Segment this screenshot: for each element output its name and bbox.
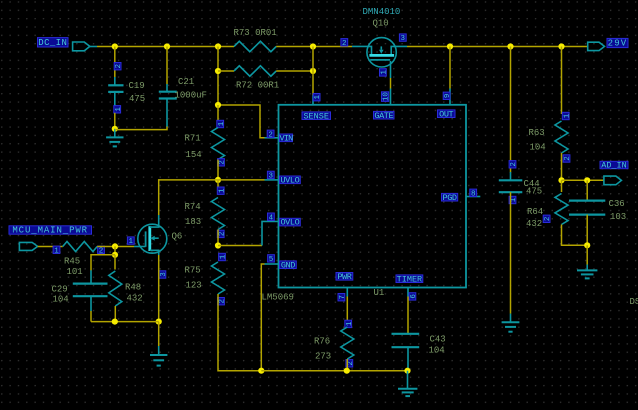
capacitor C19 (108, 77, 123, 113)
svg-text:29V: 29V (608, 39, 628, 49)
wire C44 branch down from rail (510, 47, 512, 173)
svg-text:R64: R64 (527, 207, 543, 217)
svg-text:GATE: GATE (374, 111, 393, 121)
pin number 2 of C19 (114, 63, 123, 70)
port connector 29V output (588, 42, 605, 50)
ground symbol below C43 (407, 371, 409, 388)
pin name OVLO (280, 218, 301, 228)
svg-text:DMN4010: DMN4010 (363, 7, 401, 17)
port connector AD_IN (604, 176, 622, 185)
wire UVLO node left to Q6 drain (159, 180, 218, 215)
svg-text:R74: R74 (185, 202, 201, 212)
pin number 2 of R45 (98, 246, 105, 255)
transistor Q6 (138, 215, 167, 255)
wire R74 top (217, 180, 219, 191)
pin number 2 of R75 (218, 298, 227, 305)
svg-text:R48: R48 (125, 283, 141, 293)
capacitor C21 (159, 84, 177, 127)
junction dot C44 tap (507, 43, 513, 49)
pin number 4 of U1 OVLO (268, 213, 275, 222)
IC U1 LM5069 body (279, 105, 467, 288)
pin 3 stub UVLO of U1 (265, 179, 279, 181)
wire rail Q10 source to 29V (407, 46, 588, 48)
svg-text:C36: C36 (609, 199, 625, 209)
pin number 2 of R64 (543, 215, 552, 222)
wire OUT vertical (449, 47, 451, 89)
junction dot OUT tap (447, 43, 453, 49)
pin name SENSE (302, 111, 331, 121)
svg-text:DC_IN: DC_IN (38, 38, 67, 48)
pin number 5 of U1 GND (268, 255, 275, 264)
svg-text:R45: R45 (64, 256, 80, 266)
junction dot UVLO node (215, 177, 221, 183)
svg-text:R75: R75 (185, 265, 201, 275)
junction dot R72 left (215, 68, 221, 74)
port connector MCU_MAIN_PWR (19, 242, 37, 250)
wire C36 bottom (586, 215, 588, 246)
svg-text:2: 2 (219, 160, 227, 165)
wire OVLO jog to U1 (218, 245, 262, 247)
svg-text:1: 1 (218, 188, 226, 193)
svg-text:MCU_MAIN_PWR: MCU_MAIN_PWR (12, 226, 88, 236)
wire R74 bottom to OVLO node (217, 230, 219, 246)
capacitor C36 branch (586, 180, 588, 200)
svg-text:1: 1 (218, 121, 226, 126)
port connector DC_IN (73, 42, 90, 51)
wire R71 top (217, 105, 219, 121)
wire AD_IN row (562, 179, 604, 181)
pin 1 stub Q6 gate (134, 246, 146, 248)
junction dot C19 tap (112, 43, 118, 49)
wire SENSE vertical (312, 47, 314, 96)
junction dot R76 on rail (344, 368, 350, 374)
resistor R73 0R01 on rail (234, 41, 276, 51)
junction dot C21 tap (164, 43, 170, 49)
junction dot C19/C21 ground node (112, 126, 118, 132)
svg-text:10: 10 (383, 92, 391, 102)
junction dot VIN/R71 node (215, 102, 221, 108)
svg-text:9: 9 (444, 94, 452, 99)
junction dot Q6 gate node (112, 243, 118, 249)
pin number 10 of U1 GATE (382, 92, 391, 102)
ground symbol below C44 (510, 314, 512, 322)
wire Q10 gate to U1 GATE (390, 78, 392, 89)
pin name VIN (280, 133, 294, 143)
svg-text:LM5069: LM5069 (262, 293, 294, 303)
svg-text:2: 2 (115, 64, 123, 69)
junction dot OVLO node (215, 242, 221, 248)
svg-text:1000uF: 1000uF (175, 91, 207, 101)
svg-text:104: 104 (429, 345, 445, 355)
junction dot C43 on rail (404, 368, 410, 374)
node AD_IN net label (600, 161, 628, 171)
svg-text:C21: C21 (178, 77, 194, 87)
svg-text:2: 2 (347, 361, 355, 366)
pin 1 stub SENSE into U1 (312, 95, 314, 105)
wire left bottom rail (91, 321, 159, 323)
capacitor C43 (392, 334, 420, 371)
svg-text:101: 101 (67, 267, 83, 277)
wire rail R73 to Q10 drain (276, 46, 352, 48)
node 29V net label (607, 38, 628, 48)
pin 4 bent stub OVLO of U1 (262, 221, 279, 245)
junction dot R72/R71 tap (215, 43, 221, 49)
svg-text:2: 2 (510, 162, 518, 167)
svg-text:1: 1 (220, 254, 228, 259)
svg-text:1: 1 (54, 247, 59, 255)
svg-text:R71: R71 (185, 133, 201, 143)
wire Q6 source down to rail (158, 255, 160, 322)
pin number 1 of R71 (217, 120, 226, 127)
pin number 2 of C44 (509, 161, 518, 168)
svg-text:1: 1 (346, 321, 354, 326)
pin number 1 of U1 SENSE (313, 94, 322, 101)
svg-text:TIMER: TIMER (397, 274, 423, 284)
ground symbol below C19 (114, 129, 116, 137)
svg-text:1: 1 (381, 70, 389, 75)
resistor R74 183 (212, 198, 225, 230)
junction dot C36 tap (584, 177, 590, 183)
svg-text:R73 0R01: R73 0R01 (234, 28, 277, 38)
pin name PWR (336, 272, 353, 282)
pin number 3 of Q6 source (159, 271, 168, 278)
svg-text:7: 7 (339, 295, 347, 300)
wire R64 top (561, 180, 563, 192)
svg-text:183: 183 (185, 217, 201, 227)
wire VIN jog from R72 node (218, 105, 265, 138)
svg-text:2: 2 (544, 217, 552, 222)
svg-text:U1: U1 (374, 288, 385, 298)
pin number 1 of C19 (114, 106, 123, 113)
pin 8 stub PGD of U1 (466, 196, 480, 198)
svg-text:6: 6 (410, 294, 418, 299)
svg-text:3: 3 (401, 35, 406, 43)
junction dot R72 right / SENSE (310, 68, 316, 74)
capacitor C29 (73, 270, 108, 311)
pin number 9 of U1 OUT (443, 92, 452, 99)
svg-text:C43: C43 (430, 334, 446, 344)
pin 10 stub GATE into U1 (390, 89, 392, 105)
svg-text:1: 1 (115, 107, 123, 112)
svg-text:3: 3 (160, 272, 168, 277)
svg-text:SENSE: SENSE (303, 111, 329, 121)
pin number 3 of U1 UVLO (267, 171, 274, 180)
wire R72 branch down (217, 47, 219, 106)
svg-text:Q10: Q10 (373, 19, 389, 29)
svg-text:3: 3 (269, 173, 274, 181)
wire R72 right segment (276, 70, 313, 72)
pin name GATE (374, 111, 395, 121)
svg-text:PGD: PGD (443, 193, 457, 203)
svg-text:273: 273 (315, 351, 331, 361)
wire UVLO node to U1 (218, 179, 265, 181)
svg-text:UVLO: UVLO (280, 175, 299, 185)
svg-text:2: 2 (342, 40, 347, 48)
svg-text:R72 00R1: R72 00R1 (236, 81, 279, 91)
svg-text:103: 103 (610, 212, 626, 222)
ground symbol below Q6 (158, 322, 160, 346)
svg-text:DS: DS (630, 297, 638, 307)
pin number 2 of Q10 drain (341, 39, 348, 48)
junction dot SENSE tap on rail (310, 43, 316, 49)
pin number 1 of Q6 gate (127, 237, 134, 246)
wire R64 bottom to ground node (562, 225, 588, 246)
svg-text:2: 2 (564, 156, 572, 161)
svg-text:VIN: VIN (280, 133, 294, 143)
svg-text:475: 475 (526, 186, 542, 196)
wire R72 left segment (218, 70, 234, 72)
pin name OUT (438, 109, 456, 119)
wire PWR to R76 (346, 297, 348, 322)
svg-text:154: 154 (186, 150, 202, 160)
svg-text:2: 2 (268, 131, 273, 139)
junction dot R63 tap (558, 43, 564, 49)
svg-text:123: 123 (186, 281, 202, 291)
pin name UVLO (280, 175, 301, 185)
wire R45 to Q6 gate (97, 246, 134, 248)
transistor Q10 DMN4010 (352, 38, 407, 78)
wire R71 bottom to UVLO node (217, 160, 219, 180)
svg-text:1: 1 (563, 113, 571, 118)
pin name GND (280, 260, 297, 270)
pin number 1 of R75 (219, 253, 228, 260)
pin number 1 of R76 (345, 320, 354, 327)
resistor R45 101 (63, 242, 97, 252)
pin name PGD (442, 193, 458, 203)
pin number 2 of R74 (217, 230, 226, 237)
pin number 2 of R71 (218, 159, 227, 166)
pin number 1 of R45 (53, 246, 60, 255)
wire top rail from DC_IN to R73 (90, 46, 97, 48)
wire MCU port to R45 (38, 246, 63, 248)
wire R63 branch down from rail (561, 47, 563, 115)
svg-text:5: 5 (269, 256, 274, 264)
wire R76 bottom to rail (346, 359, 348, 371)
capacitor C21 branch wire (166, 47, 168, 85)
pin number 8 of U1 PGD (470, 189, 477, 198)
wire C29 branch jog (91, 255, 115, 271)
svg-text:8: 8 (471, 190, 476, 198)
capacitor C44 (499, 172, 523, 192)
wire C44 bottom to ground (510, 192, 512, 313)
svg-text:104: 104 (53, 294, 69, 304)
node MCU_MAIN_PWR net label (9, 226, 92, 236)
wire bottom ground rail (261, 370, 407, 372)
junction dot Q6 source on rail (156, 319, 162, 325)
junction dot R48/C29 split node (112, 252, 118, 258)
junction dot GND rail corner (258, 368, 264, 374)
pin number 2 of R63 (563, 155, 572, 162)
svg-text:GND: GND (281, 260, 295, 270)
svg-text:104: 104 (530, 142, 546, 152)
node DC_IN net label (38, 38, 69, 48)
svg-text:1: 1 (510, 197, 518, 202)
resistor R63 104 (555, 121, 568, 153)
ground symbol below R64/C36 (586, 245, 588, 264)
resistor R76 273 (341, 327, 354, 359)
pin 2 stub VIN of U1 (265, 137, 279, 139)
pin number 1 of C44 (509, 196, 518, 203)
junction dot R63/R64 node (558, 177, 564, 183)
wire R48 bottom to rail (114, 306, 116, 322)
pin number 2 of R76 (346, 360, 355, 367)
resistor R72 00R1 (234, 66, 276, 76)
svg-text:432: 432 (127, 293, 143, 303)
svg-text:475: 475 (129, 94, 145, 104)
pin number 1 of R74 (217, 187, 226, 194)
pin number 1 of R63 (562, 112, 571, 119)
wire C19 to ground node (114, 113, 116, 129)
svg-text:C19: C19 (129, 81, 145, 91)
svg-text:AD_IN: AD_IN (601, 161, 627, 171)
wire C29 bottom to rail corner (90, 311, 92, 322)
svg-text:PWR: PWR (337, 272, 351, 282)
wire Q6 gate node down (114, 246, 116, 254)
wire R75 bottom to bottom rail (218, 294, 261, 371)
svg-text:1: 1 (314, 94, 322, 99)
pin number 7 of U1 PWR (338, 294, 347, 301)
svg-text:OVLO: OVLO (280, 218, 299, 228)
svg-text:432: 432 (526, 219, 542, 229)
pin number 2 of U1 VIN (267, 130, 274, 139)
svg-text:2: 2 (218, 232, 226, 237)
resistor R64 432 (555, 194, 568, 225)
pin number 3 of Q10 source (399, 34, 406, 43)
resistor R48 432 (109, 271, 122, 306)
pin number 1 of Q10 gate (380, 69, 389, 76)
resistor R71 154 (212, 128, 225, 160)
svg-text:1: 1 (129, 238, 134, 246)
wire R63 bottom to AD_IN node (561, 153, 563, 180)
svg-text:OUT: OUT (439, 109, 453, 119)
svg-text:2: 2 (219, 299, 227, 304)
junction dot R48 on rail (112, 319, 118, 325)
svg-text:R63: R63 (529, 128, 545, 138)
junction dot R64/C36 ground node (584, 242, 590, 248)
pin 7 stub PWR of U1 (346, 288, 348, 297)
wire TIMER to C43 (407, 297, 409, 334)
wire C21 bottom to ground node (115, 127, 167, 130)
svg-text:Q6: Q6 (172, 231, 183, 241)
resistor R75 123 (212, 262, 225, 294)
pin number 6 of U1 TIMER (409, 293, 418, 300)
pin 9 stub OUT into U1 (449, 89, 451, 105)
pin 6 stub TIMER of U1 (407, 288, 409, 297)
pin name TIMER (396, 274, 423, 284)
pin 5 stub GND of U1 and wire down (265, 263, 279, 265)
wire R48 top (114, 255, 116, 270)
svg-text:R76: R76 (314, 336, 330, 346)
svg-text:4: 4 (269, 214, 274, 222)
capacitor C19 branch wire (114, 47, 116, 78)
svg-text:C29: C29 (52, 284, 68, 294)
